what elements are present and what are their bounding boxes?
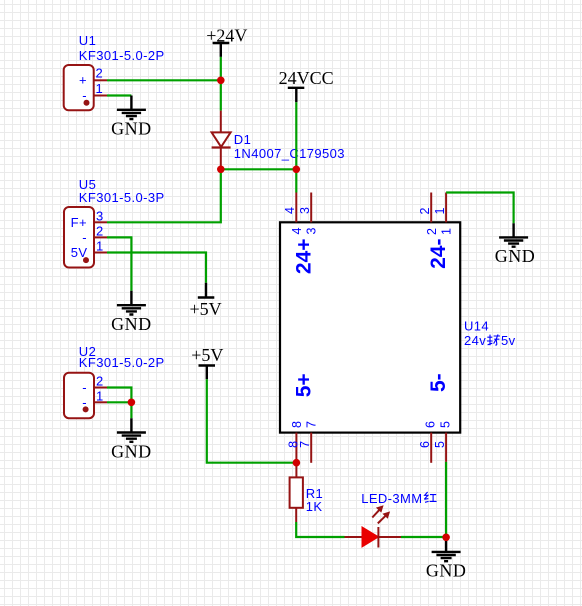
- pin 3 of U14: [310, 193, 312, 223]
- pin 5 of U14: [445, 433, 447, 462]
- svg-text:7: 7: [298, 441, 312, 448]
- svg-text:F+: F+: [71, 215, 87, 230]
- ground U5: [111, 291, 152, 334]
- svg-text:GND: GND: [111, 314, 152, 334]
- pin 1 of U1: [94, 95, 107, 97]
- junction LED/GND: [442, 534, 450, 542]
- junction 24VCC node: [293, 166, 301, 174]
- ground U1: [111, 96, 152, 139]
- svg-text:2: 2: [96, 66, 104, 81]
- wire U5 pin3 to D1 junction: [107, 169, 221, 222]
- wire 24VCC to U14 pin4: [295, 102, 297, 192]
- diode D1: [212, 111, 345, 170]
- svg-text:GND: GND: [111, 119, 152, 139]
- connector U2: [64, 344, 165, 418]
- wire U14 pin1 to GND top right: [446, 193, 513, 224]
- svg-text:U1: U1: [79, 33, 96, 48]
- wire U5 pin1 to +5V: [107, 253, 206, 283]
- svg-text:KF301-5.0-2P: KF301-5.0-2P: [79, 355, 165, 370]
- svg-text:1: 1: [433, 207, 447, 214]
- wire U5 pin2 to GND: [107, 237, 131, 290]
- svg-text:-: -: [82, 380, 87, 395]
- svg-text:1: 1: [96, 388, 104, 403]
- svg-text:3: 3: [298, 207, 312, 214]
- svg-text:2: 2: [425, 228, 439, 235]
- pin 4 of U14: [295, 193, 297, 223]
- svg-text:GND: GND: [426, 561, 467, 581]
- junction D1 cathode: [217, 166, 225, 174]
- connector U1: [64, 33, 165, 110]
- ground U2: [111, 418, 152, 461]
- svg-text:4: 4: [283, 207, 297, 214]
- power flag +5V (above U2 rail): [191, 345, 223, 379]
- junction U14 pin8 / +5V rail: [293, 459, 301, 467]
- glyph hong of LED-3MM红: [424, 492, 436, 502]
- svg-text:24v: 24v: [464, 333, 486, 348]
- pin 3 of U5: [94, 221, 107, 223]
- svg-text:1: 1: [440, 228, 454, 235]
- pin 2 of U14: [430, 193, 432, 223]
- svg-text:LED-3MM: LED-3MM: [361, 491, 422, 506]
- svg-text:24-: 24-: [427, 239, 450, 269]
- junction U2: [128, 399, 136, 407]
- resistor R1: [290, 463, 324, 522]
- wire LED to GND junction: [401, 536, 446, 538]
- wire +24V stem to junction: [220, 57, 222, 80]
- pin 6 of U14: [430, 433, 432, 463]
- wire U14 pin5 down to junction: [445, 462, 447, 537]
- wire junction down to D1 anode: [220, 80, 222, 110]
- svg-text:2: 2: [96, 223, 104, 238]
- power flag +24V: [206, 25, 247, 57]
- pin 2 of U2: [94, 387, 107, 389]
- LED arrow 2: [378, 511, 390, 523]
- svg-text:1N4007_C179503: 1N4007_C179503: [234, 146, 345, 161]
- svg-text:GND: GND: [111, 441, 152, 461]
- svg-text:1K: 1K: [306, 499, 323, 514]
- svg-text:5: 5: [439, 421, 453, 428]
- svg-text:KF301-5.0-2P: KF301-5.0-2P: [79, 48, 165, 63]
- IC U14 body: [280, 222, 516, 432]
- svg-text:5: 5: [433, 441, 447, 448]
- pin 8 of U14: [295, 433, 297, 463]
- ground bottom right: [426, 537, 467, 581]
- svg-text:GND: GND: [495, 246, 536, 266]
- svg-text:5v: 5v: [501, 333, 516, 348]
- svg-text:5+: 5+: [293, 373, 316, 397]
- pin 2 of U5: [94, 236, 107, 238]
- svg-text:8: 8: [290, 421, 304, 428]
- wire U2 pin2 to junction: [107, 388, 131, 403]
- svg-text:+: +: [79, 73, 87, 88]
- wire U1 pin1 to GND: [107, 94, 131, 96]
- svg-text:-: -: [82, 230, 87, 245]
- pin 1 of U5: [94, 252, 107, 254]
- junction +24V/U1: [217, 77, 225, 85]
- svg-text:1: 1: [96, 239, 104, 254]
- wire D1 junction to 24VCC junction: [221, 168, 296, 170]
- svg-text:+5V: +5V: [191, 345, 223, 365]
- svg-text:2: 2: [96, 374, 104, 389]
- svg-text:5-: 5-: [427, 373, 450, 392]
- wire U2 junction to GND: [130, 402, 132, 418]
- pin 1 of U14: [445, 193, 447, 223]
- svg-text:3: 3: [305, 227, 319, 234]
- glyph zhuan of 24v转5v: [487, 334, 500, 345]
- wire U2 pin1 to junction: [107, 401, 131, 403]
- ground top right: [495, 223, 536, 266]
- connector U5: [64, 177, 165, 268]
- svg-text:6: 6: [424, 421, 438, 428]
- power flag +5V (below U5): [190, 283, 222, 319]
- LED arrow 1: [372, 505, 383, 517]
- svg-text:24+: 24+: [293, 239, 316, 275]
- svg-text:24VCC: 24VCC: [279, 68, 334, 88]
- pin 7 of U14: [310, 433, 312, 463]
- svg-text:+5V: +5V: [190, 299, 222, 319]
- power flag 24VCC: [279, 68, 334, 103]
- svg-text:2: 2: [418, 207, 432, 214]
- pin 2 of U1: [94, 79, 107, 81]
- svg-text:3: 3: [96, 208, 104, 223]
- svg-text:KF301-5.0-3P: KF301-5.0-3P: [79, 190, 165, 205]
- wire U1 pin2 to +24V junction: [107, 79, 221, 81]
- pin 1 of U2: [94, 401, 107, 403]
- svg-text:4: 4: [290, 227, 304, 234]
- LED LED-3MM红: [345, 491, 437, 547]
- wire R1 to LED: [296, 522, 344, 537]
- svg-text:1: 1: [96, 81, 104, 96]
- svg-text:7: 7: [305, 421, 319, 428]
- svg-text:D1: D1: [234, 132, 251, 147]
- wire +5V to U14 pin8 junction: [207, 379, 297, 463]
- svg-text:6: 6: [418, 441, 432, 448]
- svg-text:U14: U14: [464, 319, 489, 334]
